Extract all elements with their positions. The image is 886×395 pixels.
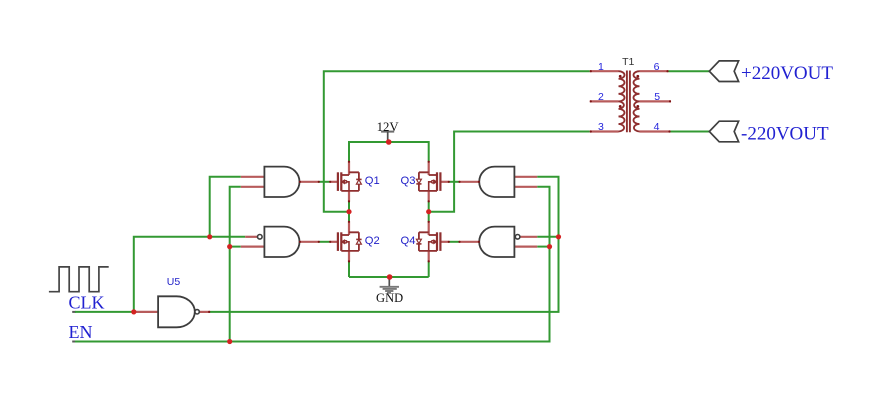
transformer T1 <box>590 71 671 133</box>
wire gate1 top input tap <box>210 177 241 237</box>
wire mid node left up to transformer pin 1 <box>324 71 590 212</box>
svg-text:T1: T1 <box>622 56 634 68</box>
svg-text:Q1: Q1 <box>365 175 380 187</box>
svg-text:12V: 12V <box>377 120 400 134</box>
and gate A2 (lower left, bubbled top input) <box>241 227 319 257</box>
junction dot gate4 bottom tap <box>547 244 552 249</box>
wire mid node right up to transformer pin 3 <box>429 132 590 212</box>
wire CLK end tick <box>72 311 76 313</box>
ground symbol GND <box>376 277 403 305</box>
junction dot CLK branch <box>131 309 136 314</box>
wire Q2 source to ground rail <box>348 261 350 277</box>
wire Q4 source to ground rail <box>428 261 430 277</box>
polarity dot winding 3 <box>636 75 639 78</box>
wire CLK horizontal <box>75 311 136 313</box>
wire Q4 drain from mid node <box>428 212 430 222</box>
svg-text:3: 3 <box>598 121 604 133</box>
junction dot Q1-Q2 node <box>346 209 351 214</box>
wire EN horizontal and right riser to gate3 bottom input <box>75 187 550 342</box>
port -220VOUT <box>709 121 738 142</box>
wire 12V rail with drops to Q1 and Q3 drains <box>349 142 429 162</box>
svg-text:Q4: Q4 <box>401 235 416 247</box>
polarity dot winding 2 <box>619 105 622 108</box>
power symbol 12V <box>377 120 400 141</box>
wire transformer pin 6 to +220VOUT port <box>669 70 710 72</box>
wire ground rail <box>349 276 429 278</box>
svg-text:6: 6 <box>654 61 660 73</box>
junction dot EN tap <box>227 339 232 344</box>
wire transformer pin 4 to -220VOUT port <box>671 131 710 133</box>
wire Q4 gate to AND4 output <box>449 241 460 243</box>
svg-text:2: 2 <box>598 91 604 103</box>
polarity dot winding 4 <box>636 105 639 108</box>
clock waveform icon <box>49 267 109 292</box>
mosfet Q2 <box>330 222 361 262</box>
wire AND1 output to Q1 gate <box>319 181 330 183</box>
wire CLK branch up and right to gate2 bubble input <box>134 237 245 312</box>
polarity dot winding 1 <box>619 75 622 78</box>
svg-text:Q2: Q2 <box>365 235 380 247</box>
wire Q3 source to mid node right <box>428 201 430 211</box>
svg-text:4: 4 <box>654 121 660 133</box>
svg-text:-220VOUT: -220VOUT <box>741 123 829 144</box>
wire NAND output to right riser to gate3 top input <box>210 177 559 312</box>
svg-text:Q3: Q3 <box>401 175 416 187</box>
wire EN end tick <box>72 341 76 343</box>
port +220VOUT <box>709 61 738 82</box>
mosfet Q4 (mirrored) <box>416 222 449 262</box>
pin hot-end dots <box>208 70 671 313</box>
mosfet Q1 <box>330 162 361 202</box>
svg-text:GND: GND <box>376 291 403 305</box>
wire Q3 gate to AND3 output <box>449 181 460 183</box>
wire EN tap vertical to gate1 bottom input <box>230 187 241 342</box>
nand gate U5 <box>136 296 210 327</box>
svg-text:CLK: CLK <box>69 293 105 313</box>
svg-text:EN: EN <box>69 322 93 342</box>
svg-text:1: 1 <box>598 61 604 73</box>
junction dot Q3-Q4 node <box>426 209 431 214</box>
wire gate2 bottom input tap <box>230 246 241 248</box>
wire gate4 top input tap <box>537 236 558 238</box>
junction dot gate2 bottom tap <box>227 244 232 249</box>
wire AND2 output to Q2 gate <box>319 241 330 243</box>
wire gate4 bottom input tap <box>537 246 549 248</box>
junction dot gate4 top tap <box>556 234 561 239</box>
mosfet Q3 (mirrored) <box>416 162 449 202</box>
and gate A4 (lower right, mirrored, bubbled top input) <box>460 227 538 257</box>
svg-text:5: 5 <box>654 91 660 103</box>
and gate A1 (upper left) <box>241 167 319 197</box>
wire Q1 source to mid node <box>348 201 350 211</box>
svg-text:+220VOUT: +220VOUT <box>741 63 833 84</box>
and gate A3 (upper right, mirrored) <box>460 167 538 197</box>
junction dot gate1 top tap <box>207 234 212 239</box>
svg-text:U5: U5 <box>167 276 181 288</box>
wire Q2 drain from mid node <box>348 212 350 222</box>
junction dot 12V rail <box>386 139 392 145</box>
junction dot GND rail <box>387 274 393 280</box>
